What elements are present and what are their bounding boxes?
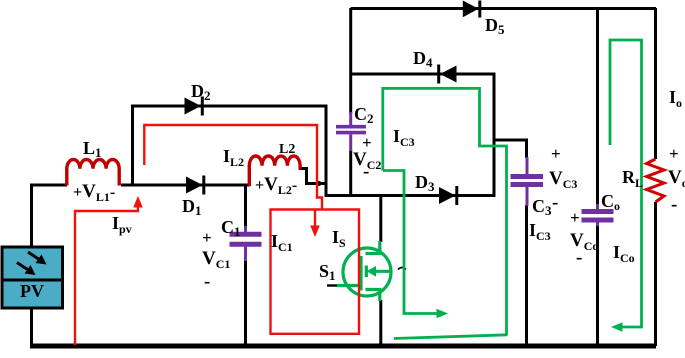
wire L1 right to L2 left (through D1) (121, 184, 250, 187)
wire D4 line with right vertical (351, 74, 494, 197)
wire C3 bottom to rail (525, 205, 528, 346)
capacitor C1 (230, 226, 262, 261)
wire S1 gate lead (327, 284, 339, 286)
capacitor C2 (336, 112, 366, 151)
wire D2 branch (up, top horizontal, down to D3 line) (133, 106, 327, 197)
wire S1 source black (379, 300, 382, 346)
inductor L2 (249, 156, 300, 186)
green loop Io (610, 40, 642, 327)
svg-text:-: - (204, 271, 210, 292)
svg-text:-: - (363, 161, 369, 182)
diode D1 (186, 176, 204, 195)
svg-text:+: + (669, 144, 679, 163)
wire C1 branch lower (244, 260, 247, 346)
red loop around C1/S1 (271, 210, 360, 334)
diode D3 (439, 186, 457, 205)
red long line from node A over L2 (144, 125, 322, 209)
diode D2 (185, 97, 203, 116)
wire RL branch lower (654, 202, 657, 346)
node junction dot staircase (317, 181, 322, 186)
wire bottom rail (30, 344, 656, 349)
wire top rail (351, 7, 656, 10)
wire Co branch lower (596, 222, 599, 346)
wire S1 drain black (379, 194, 382, 242)
svg-text:+: + (570, 208, 580, 227)
wire PV bottom lead (30, 308, 33, 346)
wire RL branch upper (654, 8, 657, 159)
wire PV top lead (30, 187, 33, 249)
diode D5 (463, 1, 480, 18)
wire L2 right staircase (299, 169, 326, 184)
wire main left horizontal (30, 184, 67, 187)
red current loop Ipv (75, 206, 138, 345)
red arrow down inside loop (314, 210, 316, 227)
wire C2 branch upper black (349, 8, 352, 114)
inductor L1 (67, 160, 119, 186)
wire C2 branch lower black (349, 150, 352, 197)
capacitor Co (582, 204, 614, 226)
capacitor C3 (511, 157, 544, 206)
PV panel (2, 247, 63, 308)
wire C3 top branch (493, 140, 527, 158)
svg-text:+: + (551, 144, 561, 163)
wire C1 branch upper (244, 185, 247, 232)
svg-text:-: - (671, 194, 677, 215)
wire Co branch upper (596, 8, 599, 210)
green loop IC3 upper (383, 88, 508, 338)
svg-text:-: - (552, 192, 558, 213)
svg-text:+: + (202, 228, 212, 247)
gate squiggle tick (398, 268, 406, 270)
svg-text:L2: L2 (279, 142, 295, 157)
diode D4 (pointing left) (439, 65, 457, 84)
wire D3 line (325, 194, 495, 197)
svg-text:-: - (576, 247, 582, 268)
resistor RL (647, 159, 665, 202)
svg-text:PV: PV (20, 281, 44, 301)
mosfet S1 (337, 241, 391, 301)
